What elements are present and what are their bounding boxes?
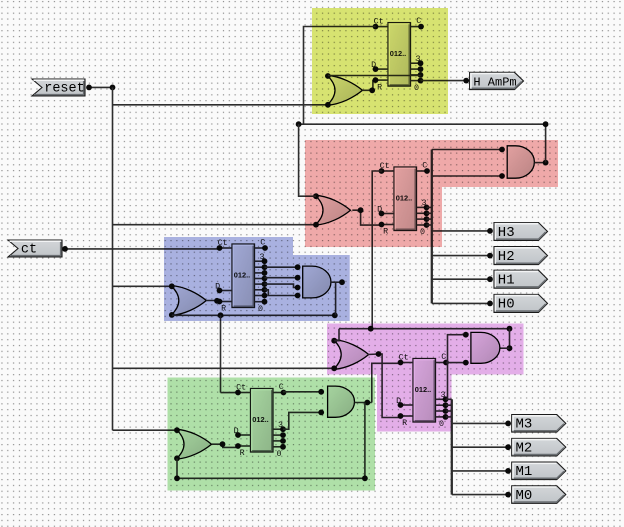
node H1 pin input (487, 276, 493, 282)
AND gate A3-AND (303, 266, 331, 298)
wire U1-OR output to CTR1 R (362, 81, 376, 91)
wire CTR1 Q leg 0 stub (411, 62, 421, 64)
wire reset branch to U1-OR lower input (113, 104, 328, 106)
wire CTR1 Ct feed from carry net (304, 27, 376, 125)
wire trunk to M1 (452, 470, 508, 472)
node CTR3 Q leg 5 (262, 287, 268, 293)
node CTR1 pin D (373, 66, 379, 72)
wire CTR3 Ct stub (220, 247, 233, 249)
wire U5-OR output to CTR5 R (368, 354, 401, 418)
output pin H3 (494, 223, 548, 241)
node CTR4 pin D (235, 432, 241, 438)
node U5-OR output (376, 351, 382, 357)
node A3-AND input 3 (295, 285, 301, 291)
wire CTR5 Q leg 1 stub (436, 404, 446, 406)
node CTR4 pin R (235, 443, 241, 449)
wire reset branch to U3-OR upper input (113, 285, 172, 287)
node CTR3 Q leg 1 (262, 264, 268, 270)
output pin H2 (494, 247, 548, 265)
node A3-AND input 4 (295, 293, 301, 299)
OR gate U3-OR (171, 286, 207, 316)
wire CTR2 Q leg 2 stub (417, 218, 427, 220)
node CTR3 Q leg 4 (262, 281, 268, 287)
wire CTR2 Q leg 0 stub (417, 206, 427, 208)
wire CTR3 D stub (220, 290, 233, 292)
OR gate U4-OR (176, 429, 212, 459)
node carry net A3 junction at A3-AND (332, 312, 338, 318)
highlight region green (168, 378, 376, 491)
node CTR5 pin D (398, 402, 404, 408)
node M1 pin input (505, 468, 511, 474)
node M2 pin input (505, 444, 511, 450)
wire CTR3 Q to A3-AND input 4 (265, 290, 298, 296)
node U3-OR input A (169, 283, 175, 289)
node U3-OR input B (169, 312, 175, 318)
wire CTR2 leg-trunk stub y=213.3 (427, 212, 432, 214)
wire CTR4 R stub (238, 445, 251, 447)
wire CTR5 leg-trunk stub y=416.9 (446, 416, 452, 418)
node A5-AND input B (463, 360, 469, 366)
highlight region blue (164, 237, 350, 321)
svg-text:H3: H3 (498, 225, 515, 241)
output pin H AmPm (470, 72, 524, 89)
counter CTR1 (012..) (388, 23, 411, 87)
node CTR4 pin C (281, 390, 287, 396)
node carry net A5 junction (368, 326, 374, 332)
wire CTR1 Q0 to H AmPm pin (421, 80, 467, 82)
wire CTR2 D stub (382, 213, 395, 215)
node A5-AND output (507, 345, 513, 351)
node CTR3 Q leg 0 (262, 258, 268, 264)
AND gate A5-AND (471, 332, 500, 363)
counter CTR5 (012..) (413, 359, 436, 423)
wire CTR5 Q3 to A5-AND input A (446, 335, 466, 400)
wire CTR2 Q leg 3 stub (417, 224, 427, 226)
wire A2-AND output riser (545, 124, 547, 162)
wire CTR2 R stub (382, 224, 395, 226)
wire U4-OR output to CTR4 R (212, 444, 238, 447)
node CTR4 Q leg 3 (280, 444, 286, 450)
node CTR3 Q leg 6 (262, 293, 268, 299)
node carry net A2 junction (296, 121, 302, 127)
node A3-AND input 2 (295, 275, 301, 281)
node carry net A4 corner SE (362, 475, 368, 481)
wire CTR4 Q leg 1 stub (273, 434, 283, 436)
node CTR4 Q leg 2 (280, 438, 286, 444)
node A4-AND input A (318, 389, 324, 395)
node carry net A5 corner (507, 326, 513, 332)
svg-text:ct: ct (21, 243, 37, 258)
node CTR2 Q leg 2 (424, 216, 430, 222)
wire CTR1 Q2 feedback to U1-OR input A (328, 75, 421, 77)
wire carry net A3 horizontal (172, 314, 335, 316)
wire CTR5 splitter trunk (451, 399, 453, 494)
wire CTR2 splitter trunk (431, 150, 433, 304)
node H3 pin input (487, 228, 493, 234)
counter CTR4 (012..) (251, 389, 274, 453)
wire CTR4 Q leg 0 stub (273, 428, 283, 430)
wire trunk to H1 (432, 278, 490, 280)
wire CTR2 Q leg 1 stub (417, 212, 427, 214)
node CTR2 pin R (379, 222, 385, 228)
svg-text:reset: reset (44, 82, 85, 97)
node U5-OR input A (331, 338, 337, 344)
node M3 pin input (505, 421, 511, 427)
node A4-AND input B (318, 410, 324, 416)
svg-text:M3: M3 (516, 417, 533, 433)
wire CTR2 Ct feed from carry net A5 (372, 171, 382, 329)
node A3-AND input 1 (295, 264, 301, 270)
wire CTR4 Q leg 3 stub (273, 446, 283, 448)
wire CTR1 Q leg 1 stub (411, 68, 421, 70)
wire CTR2 leg-trunk stub y=225 (427, 224, 432, 226)
wire CTR1 D stub (376, 68, 389, 70)
wire carry net A2 horizontal (299, 123, 546, 125)
wire CTR5 leg-trunk stub y=411 (446, 410, 452, 412)
node CTR5 Q leg 1 (443, 402, 449, 408)
wire A5-AND output riser (509, 329, 511, 349)
node CTR3 Q leg 3 (262, 276, 268, 282)
wire reset vertical bus x=112.5 (112, 87, 114, 430)
wire CTR5 R stub (401, 415, 414, 417)
node CTR3 pin Ct (217, 245, 223, 251)
node CTR5 pin R (398, 413, 404, 419)
output pin M3 (512, 415, 566, 433)
node CTR1 pin Ct (373, 24, 379, 30)
wire trunk to A2-AND input A (432, 149, 502, 151)
node carry net A4 corner SW (174, 475, 180, 481)
wire CTR5 C stub (436, 362, 447, 364)
node U4-OR output (220, 441, 226, 447)
node CTR3 Q leg 7 (262, 299, 268, 305)
wire carry net A5 to U5-OR input A (334, 329, 339, 341)
AND gate A2-AND (hours max detect) (507, 146, 534, 178)
OR gate U1-OR (AmPm reset) (327, 75, 363, 105)
wire CTR2 leg-trunk stub y=207.4 (427, 206, 432, 208)
wire trunk to M2 (452, 446, 508, 448)
wire A3-AND output stub (331, 281, 342, 283)
input pin reset (32, 79, 85, 97)
node CTR5 Q leg 0 (443, 396, 449, 402)
wire U2-OR output to CTR2 R (352, 210, 382, 225)
wire CTR4 D stub (238, 434, 251, 436)
wire reset branch to U5-OR lower input (113, 367, 335, 369)
wire A4-AND output stub (355, 402, 372, 404)
node CTR4 Q leg 0 (280, 426, 286, 432)
output pin H0 (494, 294, 548, 312)
node ct pin output (62, 246, 68, 252)
wire CTR3 Q to A3-AND input 3 (265, 284, 298, 287)
output pin M0 (512, 486, 566, 504)
wire CTR3 Q leg 2 stub (255, 272, 265, 274)
node CTR2 Q leg 3 (424, 222, 430, 228)
node CTR2 Q leg 0 (424, 205, 430, 211)
node H0 pin input (487, 301, 493, 307)
node CTR1 Q leg 3 (418, 78, 424, 84)
svg-text:H AmPm: H AmPm (473, 75, 516, 89)
svg-text:M0: M0 (516, 488, 533, 504)
node U4-OR input B (174, 455, 180, 461)
node M0 pin input (505, 492, 511, 498)
node CTR5 pin C (443, 360, 449, 366)
wire reset output to junction (89, 86, 113, 88)
node CTR1 pin R (373, 77, 379, 83)
wire CTR4 Q3 to A4-AND input B (283, 412, 321, 429)
wire carry net A3 drop to CTR4 (220, 315, 222, 392)
wire A3-AND output drop (335, 282, 337, 315)
wire CTR1 R stub (376, 79, 389, 81)
node A5-AND input A (463, 332, 469, 338)
wire CTR5 Q leg 0 stub (436, 398, 446, 400)
svg-text:H2: H2 (498, 249, 515, 265)
output pin M2 (512, 438, 566, 456)
wire CTR3 Q leg 3 stub (255, 278, 265, 280)
output pin H1 (494, 270, 548, 288)
wire CTR3 Q leg 1 stub (255, 266, 265, 268)
node A3-AND output (339, 279, 345, 285)
wire CTR1 Q leg 3 stub (411, 80, 421, 82)
wire carry net A4 feedback to U4-OR input B (177, 403, 365, 479)
wire CTR3 Q leg 7 stub (255, 301, 265, 303)
wire CTR5 leg-trunk stub y=399.3 (446, 398, 452, 400)
wire CTR3 C stub (255, 247, 266, 249)
node CTR2 pin C (424, 168, 430, 174)
wire CTR4 C stub (273, 392, 284, 394)
counter CTR3 (012..) (232, 244, 255, 308)
node A2-AND output (543, 160, 549, 166)
node A2-AND input A (499, 147, 505, 153)
node CTR2 pin D (379, 211, 385, 217)
wire CTR2 Ct stub (382, 170, 395, 172)
node U3-OR output (214, 298, 220, 304)
node CTR4 Q leg 1 (280, 432, 286, 438)
wire CTR3 Q leg 0 stub (255, 260, 265, 262)
node U4-OR input A (174, 427, 180, 433)
wire carry net A5 horizontal (339, 328, 510, 330)
wire CTR1 C stub (411, 26, 422, 28)
node A4-AND output (364, 400, 370, 406)
wire CTR3 R stub (220, 301, 233, 303)
node CTR5 Q leg 3 (443, 414, 449, 420)
wire carry net A2 to U2-OR input A (299, 124, 316, 196)
svg-text:M1: M1 (516, 464, 533, 480)
OR gate U2-OR (hours reset) (315, 195, 351, 225)
node carry net A3 junction to CTR4 Ct (218, 312, 224, 318)
node CTR1 Q leg 1 (418, 66, 424, 72)
node U2-OR output (358, 207, 364, 213)
node U1-OR output (369, 87, 375, 93)
counter CTR2 (012..) (394, 167, 417, 231)
wire CTR4 Ct stub (238, 392, 251, 394)
wire ct to counter CTR3 Ct (65, 248, 219, 250)
wire CTR3 Q leg 4 stub (255, 283, 265, 285)
highlight region red (hours stage) (305, 140, 558, 247)
wire trunk to H0 (432, 302, 490, 304)
wire CTR1 Ct stub (376, 26, 389, 28)
wire A5-AND output stub (500, 347, 510, 349)
wire CTR3 Q leg 6 stub (255, 295, 265, 297)
node CTR1 Q leg 2 (418, 72, 424, 78)
highlight region yellow (AmPm stage) (312, 8, 448, 114)
wire CTR4 Q leg 2 stub (273, 440, 283, 442)
node U5-OR input B (331, 365, 337, 371)
node CTR5 Q leg 2 (443, 408, 449, 414)
wire carry net A3 to CTR4 Ct (221, 392, 239, 394)
wire carry net A4 to CTR5 Ct (372, 363, 401, 402)
wire CTR2 leg-trunk stub y=219.1 (427, 218, 432, 220)
wire CTR5 Q leg 3 stub (436, 416, 446, 418)
wire CTR3 Q to A3-AND input 2 (265, 277, 298, 279)
node U1-OR input A (325, 73, 331, 79)
node CTR1 pin C (418, 24, 424, 30)
node CTR2 Q leg 1 (424, 210, 430, 216)
node CTR3 pin C (262, 245, 268, 251)
OR gate U5-OR (333, 340, 369, 370)
svg-text:H0: H0 (498, 297, 515, 313)
svg-text:M2: M2 (516, 440, 533, 456)
wire trunk to M0 (452, 494, 508, 496)
wire reset branch to U2-OR lower input (113, 224, 317, 226)
wire U3-OR output to CTR3 R (206, 301, 219, 302)
wire trunk to H3 (432, 230, 490, 232)
node CTR3 pin R (217, 299, 223, 305)
node U2-OR input B (313, 222, 319, 228)
wire CTR5 Ct stub (401, 362, 414, 364)
node CTR3 Q leg 2 (262, 270, 268, 276)
wire CTR2 C stub (417, 170, 428, 172)
node carry net A2 corner (543, 121, 549, 127)
node H2 pin input (487, 253, 493, 259)
wire CTR3 Q to A3-AND input 1 (265, 266, 298, 268)
node CTR3 pin D (217, 288, 223, 294)
wire CTR3 Q leg 5 stub (255, 289, 265, 291)
input pin ct (8, 240, 62, 258)
node U1-OR input B (325, 102, 331, 108)
node CTR2 pin Ct (379, 168, 385, 174)
wire trunk to H2 (432, 255, 490, 257)
node CTR4 pin Ct (235, 390, 241, 396)
node U2-OR input A (313, 193, 319, 199)
node H AmPm pin input (463, 78, 469, 84)
output pin M1 (512, 462, 566, 480)
node CTR5 pin Ct (398, 360, 404, 366)
wire A2-AND output stub (534, 162, 545, 164)
wire CTR4 C to A4-AND input A (283, 391, 321, 393)
wire CTR5 C to A5-AND input B (446, 362, 466, 364)
node reset pin output (86, 85, 92, 91)
svg-text:H1: H1 (498, 273, 515, 289)
wire trunk to A2-AND input B (432, 175, 502, 177)
highlight region purple (327, 324, 524, 432)
wire trunk to M3 (452, 422, 508, 424)
node CTR1 Q leg 0 (418, 60, 424, 66)
node A2-AND input B (499, 173, 505, 179)
wire reset branch to U4-OR upper input (113, 429, 178, 431)
node reset junction (110, 85, 116, 91)
wire CTR5 leg-trunk stub y=405.2 (446, 404, 452, 406)
wire CTR1 Q leg 2 stub (411, 74, 421, 76)
wire CTR5 Q leg 2 stub (436, 410, 446, 412)
wire CTR5 D stub (401, 404, 414, 406)
AND gate A4-AND (328, 386, 355, 417)
